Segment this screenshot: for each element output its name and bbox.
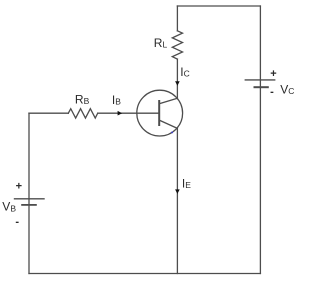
- wire base: [29, 112, 159, 114]
- node blue dot artifact: [171, 132, 173, 134]
- current arrow IE: [175, 189, 180, 194]
- transistor Q1: [137, 90, 183, 136]
- wire bottom: [29, 273, 260, 275]
- wire left: [28, 113, 30, 273]
- wire top: [177, 5, 260, 7]
- wire collector vertical: [176, 6, 178, 98]
- emitter lead: [159, 120, 177, 128]
- svg-text:+: +: [270, 68, 276, 80]
- base bar: [158, 100, 160, 126]
- transistor body circle: [137, 90, 183, 136]
- svg-text:+: +: [16, 180, 22, 192]
- battery VC plates: [245, 80, 276, 87]
- resistor RB: [68, 109, 97, 118]
- wire emitter vertical: [176, 128, 178, 273]
- battery VB plates: [14, 199, 45, 205]
- resistor RL: [172, 31, 182, 59]
- current arrow IC: [175, 81, 180, 86]
- wire right: [259, 6, 261, 274]
- svg-text:-: -: [270, 86, 274, 98]
- svg-text:-: -: [15, 216, 19, 228]
- current arrow IB: [118, 111, 123, 116]
- collector lead: [159, 98, 177, 104]
